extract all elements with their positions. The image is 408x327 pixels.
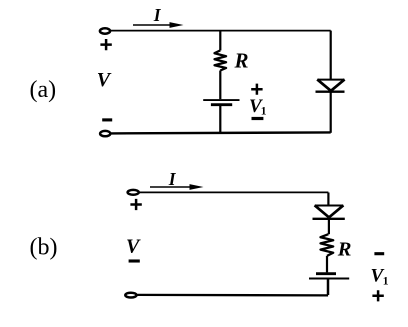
svg-text:(a): (a): [30, 77, 57, 103]
svg-text:R: R: [234, 49, 249, 73]
svg-text:1: 1: [383, 276, 389, 288]
svg-text:V: V: [126, 236, 141, 258]
svg-text:I: I: [153, 5, 162, 25]
svg-text:1: 1: [261, 105, 267, 117]
svg-text:V: V: [97, 69, 112, 91]
svg-text:(b): (b): [30, 234, 58, 260]
svg-text:I: I: [168, 169, 177, 189]
svg-text:R: R: [337, 239, 352, 261]
